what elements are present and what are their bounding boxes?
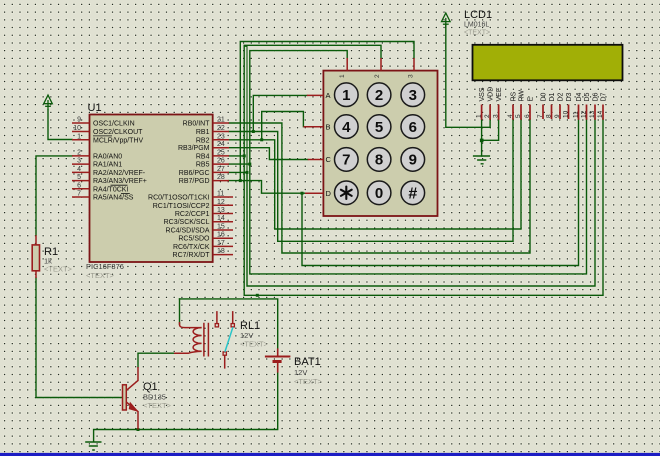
svg-text:22: 22 xyxy=(217,125,225,132)
svg-text:MCLR/Vpp/THV: MCLR/Vpp/THV xyxy=(93,137,144,144)
svg-text:28: 28 xyxy=(217,174,225,181)
svg-text:OSC1/CLKIN: OSC1/CLKIN xyxy=(93,121,135,128)
svg-text:10: 10 xyxy=(563,110,570,118)
svg-text:2: 2 xyxy=(374,74,381,78)
svg-text:RC0/T1OSO/T1CKI: RC0/T1OSO/T1CKI xyxy=(148,195,210,202)
svg-text:23: 23 xyxy=(217,133,225,140)
svg-text:9: 9 xyxy=(77,117,81,124)
svg-text:6: 6 xyxy=(524,114,531,118)
svg-text:RA0/AN0: RA0/AN0 xyxy=(93,153,122,160)
svg-text:VDD: VDD xyxy=(488,87,495,102)
svg-text:8: 8 xyxy=(375,152,383,169)
svg-text:RW: RW xyxy=(519,90,526,102)
svg-text:5: 5 xyxy=(515,114,522,118)
svg-text:5: 5 xyxy=(77,174,81,181)
svg-text:24: 24 xyxy=(217,141,225,148)
svg-text:<TEXT>: <TEXT> xyxy=(44,265,73,274)
svg-text:VEE: VEE xyxy=(496,87,503,101)
svg-text:PIC16F876: PIC16F876 xyxy=(86,262,124,271)
svg-text:0: 0 xyxy=(375,185,383,202)
svg-text:LM016L: LM016L xyxy=(464,21,489,28)
svg-text:8: 8 xyxy=(546,114,553,118)
svg-text:VSS: VSS xyxy=(479,87,486,101)
svg-text:7: 7 xyxy=(77,191,81,198)
svg-text:A: A xyxy=(326,91,331,100)
svg-text:1: 1 xyxy=(339,74,346,78)
svg-text:25: 25 xyxy=(217,149,225,156)
svg-text:D: D xyxy=(326,189,332,198)
svg-text:RB7/PGD: RB7/PGD xyxy=(179,178,210,185)
svg-text:9: 9 xyxy=(554,114,561,118)
svg-text:BAT1: BAT1 xyxy=(294,356,321,368)
svg-text:7: 7 xyxy=(342,152,350,169)
svg-text:RC3/SCK/SCL: RC3/SCK/SCL xyxy=(164,219,210,226)
svg-text:LCD1: LCD1 xyxy=(464,9,492,21)
svg-text:4: 4 xyxy=(507,114,514,118)
svg-text:RC4/SDI/SDA: RC4/SDI/SDA xyxy=(166,228,210,235)
svg-text:D1: D1 xyxy=(549,92,556,101)
svg-text:2: 2 xyxy=(375,87,383,104)
svg-text:12: 12 xyxy=(217,199,225,206)
svg-text:D2: D2 xyxy=(558,92,565,101)
svg-text:RA4/T0CKI: RA4/T0CKI xyxy=(93,186,128,193)
svg-text:6: 6 xyxy=(409,119,417,136)
svg-text:15: 15 xyxy=(217,224,225,231)
svg-text:RB2: RB2 xyxy=(196,137,210,144)
svg-text:3: 3 xyxy=(408,74,415,78)
svg-text:4: 4 xyxy=(77,166,81,173)
svg-text:RA2/AN2/VREF-: RA2/AN2/VREF- xyxy=(93,170,146,177)
svg-text:RB3/PGM: RB3/PGM xyxy=(178,145,210,152)
svg-text:3: 3 xyxy=(409,87,417,104)
svg-text:RC2/CCP1: RC2/CCP1 xyxy=(175,211,210,218)
svg-text:9: 9 xyxy=(409,152,417,169)
svg-text:11: 11 xyxy=(217,191,224,198)
svg-text:D6: D6 xyxy=(593,92,600,101)
svg-text:RB5: RB5 xyxy=(196,162,210,169)
svg-text:RC1/T1OSI/CCP2: RC1/T1OSI/CCP2 xyxy=(153,203,210,210)
svg-text:B: B xyxy=(326,122,331,131)
svg-text:Q1: Q1 xyxy=(143,381,158,393)
svg-text:14: 14 xyxy=(597,110,604,118)
svg-text:1: 1 xyxy=(476,114,483,118)
svg-text:#: # xyxy=(408,186,417,203)
svg-text:14: 14 xyxy=(217,215,225,222)
svg-text:3: 3 xyxy=(493,114,500,118)
svg-text:C: C xyxy=(326,155,332,164)
svg-text:4: 4 xyxy=(342,119,351,136)
svg-text:21: 21 xyxy=(217,117,225,124)
svg-text:13: 13 xyxy=(589,110,596,118)
svg-text:<TEXT>: <TEXT> xyxy=(464,30,490,37)
svg-text:<TEXT>: <TEXT> xyxy=(240,340,269,349)
svg-text:13: 13 xyxy=(217,207,225,214)
svg-text:U1: U1 xyxy=(88,102,102,114)
svg-text:3: 3 xyxy=(77,158,81,165)
svg-text:RC5/SDO: RC5/SDO xyxy=(178,236,210,243)
svg-text:RB4: RB4 xyxy=(196,153,210,160)
svg-text:12: 12 xyxy=(581,110,588,118)
svg-text:1: 1 xyxy=(77,133,81,140)
svg-text:RB1: RB1 xyxy=(196,129,210,136)
svg-text:17: 17 xyxy=(217,240,225,247)
svg-text:OSC2/CLKOUT: OSC2/CLKOUT xyxy=(93,129,143,136)
svg-text:12V: 12V xyxy=(294,368,307,377)
svg-text:RA3/AN3/VREF+: RA3/AN3/VREF+ xyxy=(93,178,147,185)
svg-text:D0: D0 xyxy=(541,92,548,101)
svg-text:7: 7 xyxy=(537,114,544,118)
svg-text:RC6/TX/CK: RC6/TX/CK xyxy=(173,244,210,251)
svg-text:11: 11 xyxy=(573,111,580,118)
svg-text:RA5/AN4/SS: RA5/AN4/SS xyxy=(93,195,134,202)
svg-text:RA1/AN1: RA1/AN1 xyxy=(93,162,122,169)
svg-text:16: 16 xyxy=(217,232,225,239)
svg-text:<TEXT>: <TEXT> xyxy=(86,271,115,280)
svg-text:10: 10 xyxy=(73,125,81,132)
svg-text:<TEXT>: <TEXT> xyxy=(294,377,323,386)
svg-text:RC7/RX/DT: RC7/RX/DT xyxy=(173,252,211,259)
svg-text:D5: D5 xyxy=(584,92,591,101)
svg-text:6: 6 xyxy=(77,182,81,189)
svg-text:1: 1 xyxy=(342,87,350,104)
svg-text:18: 18 xyxy=(217,248,225,255)
svg-text:RB6/PGC: RB6/PGC xyxy=(179,170,210,177)
svg-text:E: E xyxy=(528,97,535,102)
svg-text:RB0/INT: RB0/INT xyxy=(183,121,211,128)
svg-text:27: 27 xyxy=(217,166,225,173)
svg-text:2: 2 xyxy=(484,114,491,118)
svg-text:D4: D4 xyxy=(576,92,583,101)
svg-text:5: 5 xyxy=(375,119,383,136)
svg-text:<TEXT>: <TEXT> xyxy=(143,401,172,410)
svg-text:2: 2 xyxy=(77,149,81,156)
svg-text:RS: RS xyxy=(511,91,518,101)
svg-text:D3: D3 xyxy=(566,92,573,101)
svg-text:26: 26 xyxy=(217,158,225,165)
svg-text:D7: D7 xyxy=(601,92,608,101)
